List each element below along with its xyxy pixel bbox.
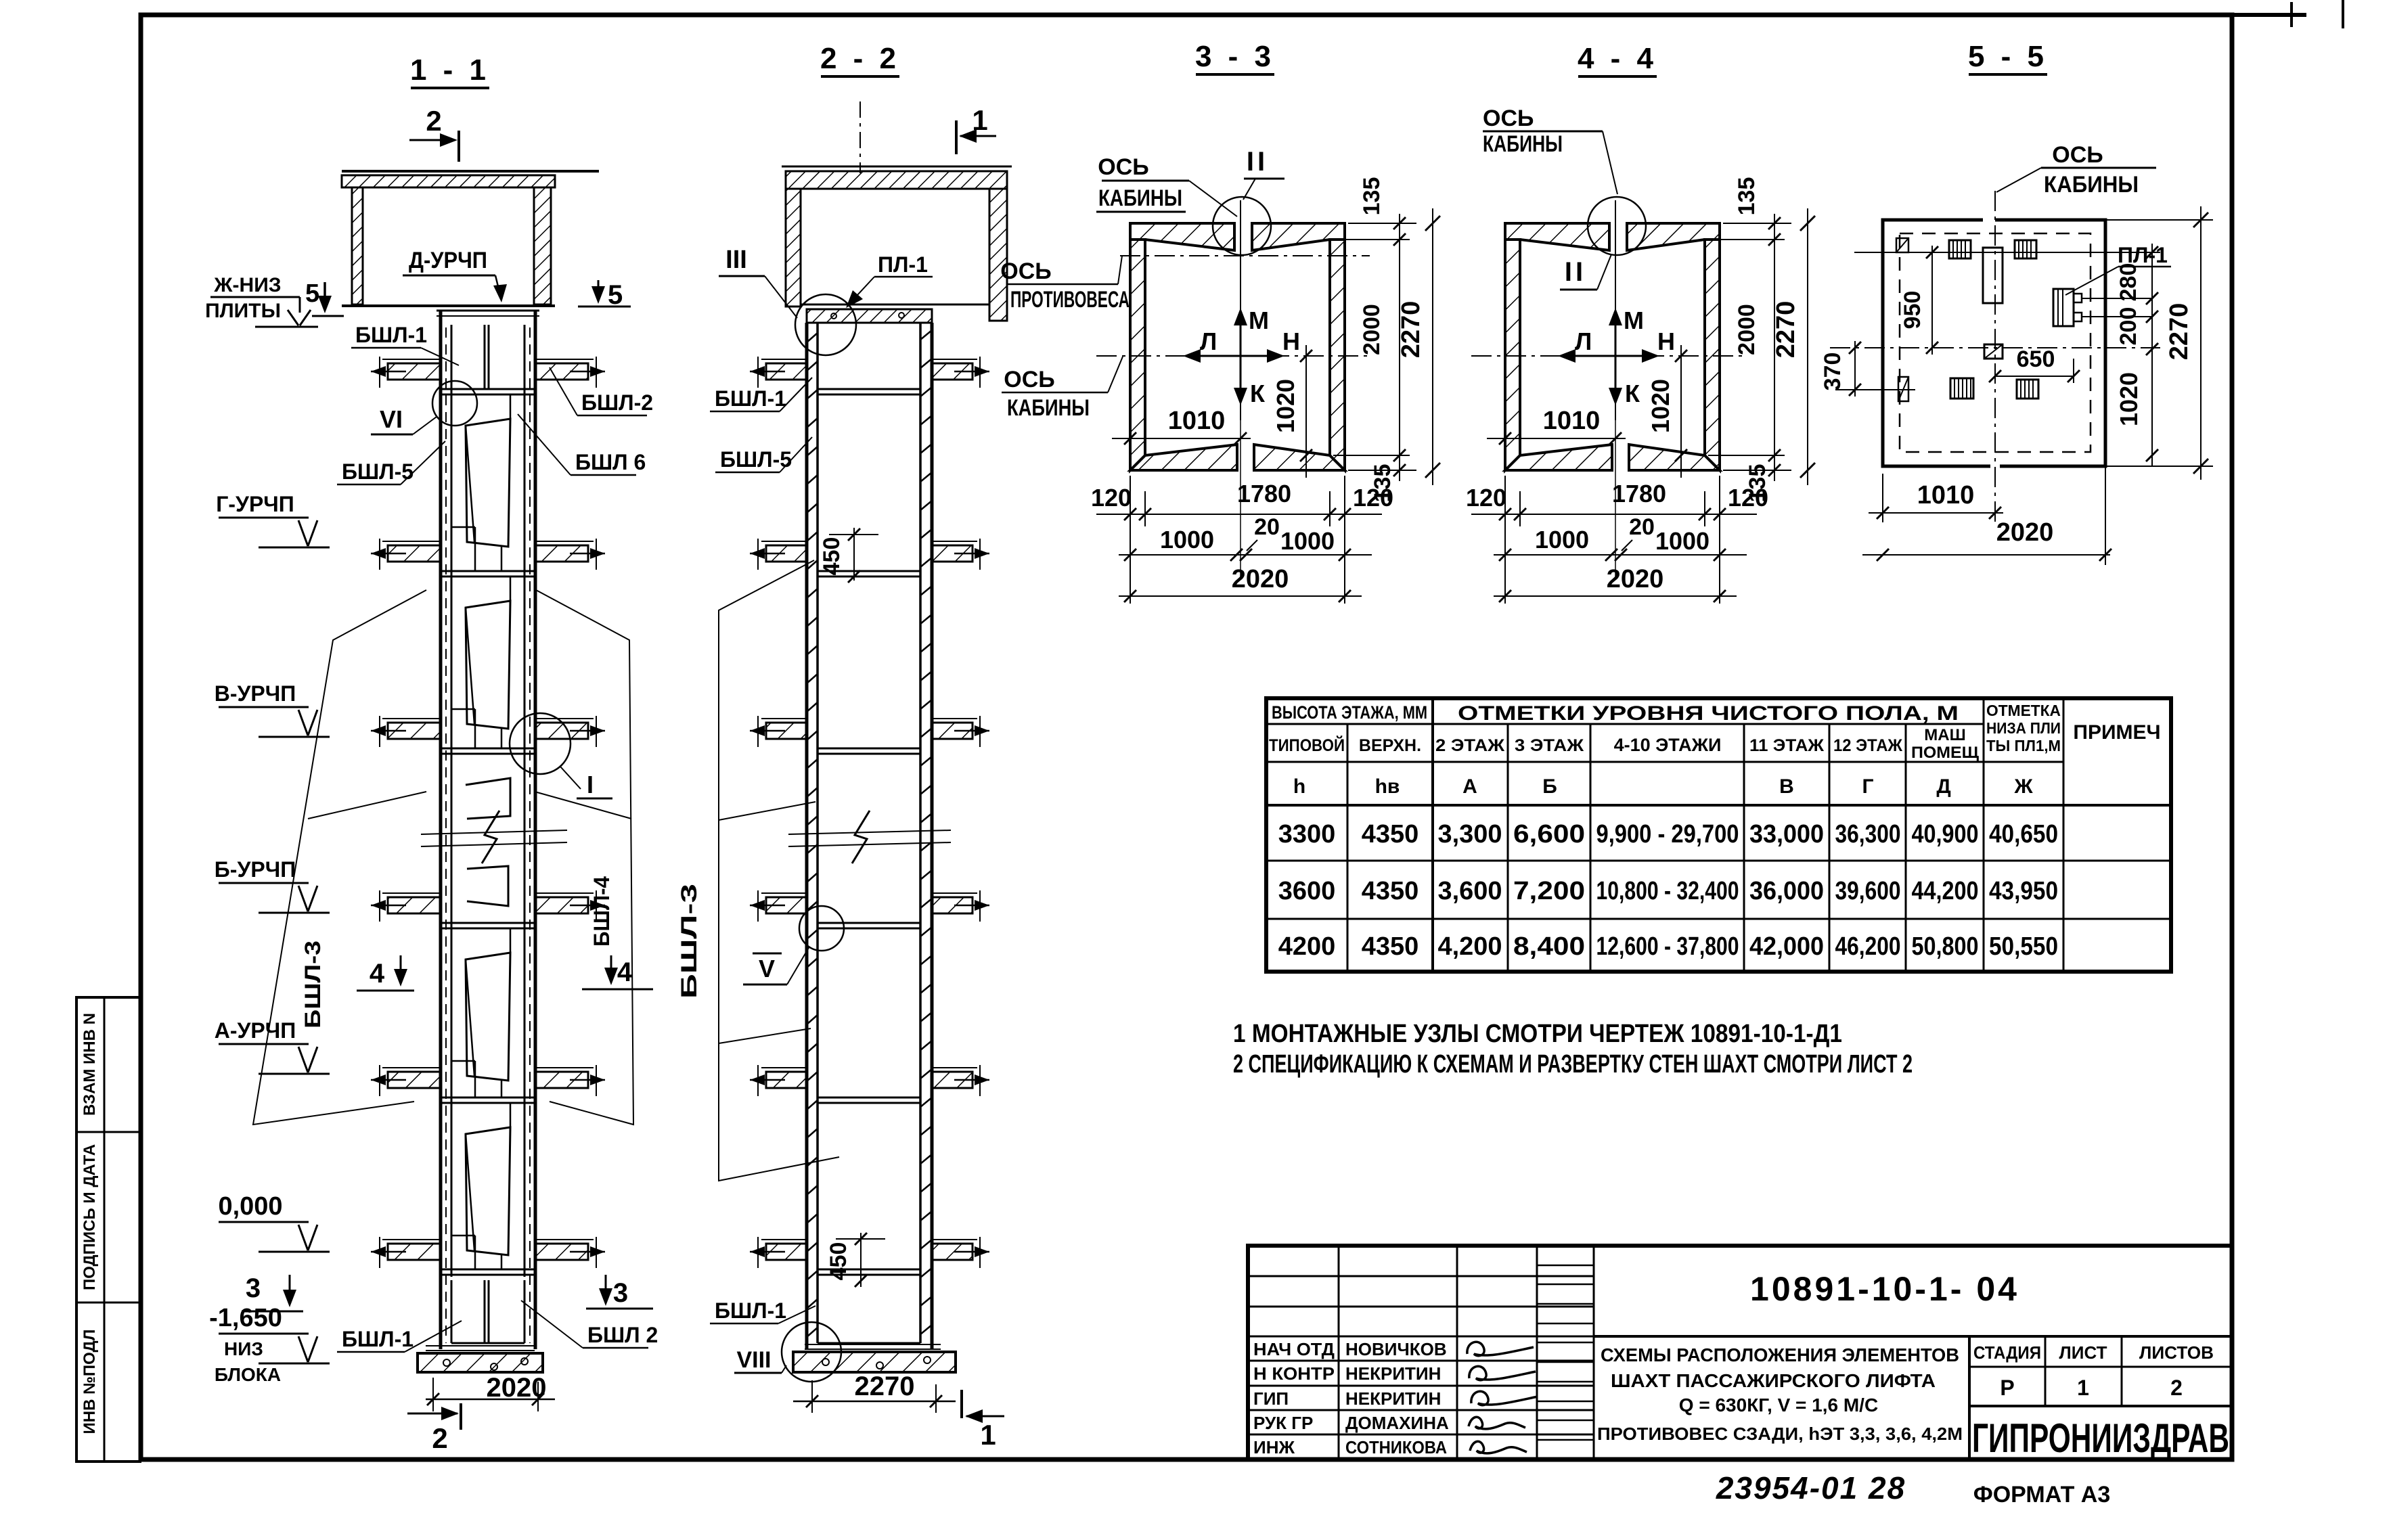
svg-text:НОВИЧКОВ: НОВИЧКОВ bbox=[1345, 1339, 1447, 1359]
svg-text:4: 4 bbox=[617, 957, 633, 987]
svg-text:ШАХТ ПАССАЖИРСКОГО ЛИФТА: ШАХТ ПАССАЖИРСКОГО ЛИФТА bbox=[1611, 1370, 1936, 1391]
svg-text:К: К bbox=[1250, 380, 1266, 407]
svg-text:1: 1 bbox=[980, 1419, 996, 1451]
svg-text:М: М bbox=[1624, 307, 1644, 334]
svg-text:ОСЬ: ОСЬ bbox=[2052, 142, 2103, 168]
svg-text:II: II bbox=[1247, 147, 1268, 177]
svg-text:46,200: 46,200 bbox=[1835, 932, 1901, 961]
dim 950 bbox=[1931, 246, 1933, 355]
svg-text:БШЛ-3: БШЛ-3 bbox=[677, 884, 701, 999]
section marker 1 (bottom) bbox=[960, 1390, 963, 1418]
svg-text:2: 2 bbox=[432, 1422, 447, 1454]
svg-text:40,900: 40,900 bbox=[1912, 820, 1979, 848]
svg-text:6,600: 6,600 bbox=[1513, 820, 1585, 848]
shaft 1-1 left wall bbox=[439, 311, 443, 1349]
svg-text:ГИП: ГИП bbox=[1253, 1388, 1289, 1409]
svg-text:БШЛ-1: БШЛ-1 bbox=[342, 1327, 414, 1351]
svg-text:СТАДИЯ: СТАДИЯ bbox=[1973, 1342, 2041, 1363]
section marker 5 right bbox=[598, 280, 600, 300]
svg-text:h: h bbox=[1293, 775, 1305, 798]
svg-text:2000: 2000 bbox=[1359, 304, 1385, 355]
svg-text:4 - 4: 4 - 4 bbox=[1578, 42, 1657, 75]
break symbol 2-2 bbox=[788, 830, 951, 834]
svg-text:Р: Р bbox=[2000, 1376, 2014, 1400]
svg-text:ИНЖ: ИНЖ bbox=[1253, 1437, 1295, 1457]
shaft 2-2 block joints bbox=[818, 388, 920, 390]
section 4-4 walls bbox=[1505, 223, 1609, 250]
slab ПЛ-1 bbox=[807, 309, 932, 323]
break symbol 1-1 bbox=[421, 830, 567, 834]
shaft 1-1 door openings bbox=[466, 419, 510, 547]
svg-text:0,000: 0,000 bbox=[218, 1192, 282, 1221]
svg-text:370: 370 bbox=[1820, 353, 1846, 391]
wall hatch ticks 2-2 bbox=[807, 333, 818, 342]
svg-text:12 ЭТАЖ: 12 ЭТАЖ bbox=[1833, 736, 1902, 755]
svg-text:1000: 1000 bbox=[1280, 527, 1335, 555]
detail circle III bbox=[795, 294, 856, 355]
section 3-3 axes bbox=[1096, 355, 1370, 357]
svg-text:2270: 2270 bbox=[1772, 301, 1800, 359]
svg-text:10891-10-1- 04: 10891-10-1- 04 bbox=[1750, 1270, 2019, 1308]
bottom dims (4-4) bbox=[1471, 514, 1757, 515]
section 4-4 axes bbox=[1471, 355, 1745, 357]
title block frame bbox=[1248, 1246, 2232, 1459]
svg-text:ПРИМЕЧ: ПРИМЕЧ bbox=[2073, 721, 2160, 744]
svg-text:1000: 1000 bbox=[1655, 527, 1710, 555]
svg-text:В-УРЧП: В-УРЧП bbox=[215, 681, 296, 706]
svg-text:К: К bbox=[1625, 380, 1640, 407]
svg-text:2270: 2270 bbox=[1397, 301, 1425, 359]
svg-text:ПОДПИСЬ И ДАТА: ПОДПИСЬ И ДАТА bbox=[81, 1144, 99, 1290]
svg-text:2020: 2020 bbox=[1607, 565, 1664, 593]
svg-text:-1,650: -1,650 bbox=[209, 1304, 282, 1332]
attachment strip cells bbox=[76, 997, 140, 1462]
svg-text:БШЛ-1: БШЛ-1 bbox=[715, 1298, 786, 1323]
svg-text:VI: VI bbox=[380, 405, 403, 433]
svg-text:МАШ: МАШ bbox=[1924, 726, 1965, 744]
svg-text:33,000: 33,000 bbox=[1749, 820, 1824, 848]
svg-text:БШЛ-2: БШЛ-2 bbox=[581, 390, 653, 415]
svg-text:ВЕРХН.: ВЕРХН. bbox=[1359, 736, 1421, 755]
svg-text:I: I bbox=[587, 771, 594, 798]
bottom dims (3-3) bbox=[1096, 514, 1382, 515]
shaft 1-1 top row blocks БШЛ-1 / БШЛ-2 bbox=[484, 325, 486, 390]
svg-text:ОСЬ: ОСЬ bbox=[1483, 106, 1534, 131]
machine room 2-2 right wall bbox=[989, 189, 1007, 321]
svg-text:36,000: 36,000 bbox=[1749, 877, 1824, 905]
right dims 135/2000/135 (3-3) bbox=[1348, 223, 1416, 224]
svg-text:ПРОТИВОВЕС СЗАДИ, hЭТ 3,3, 3,6: ПРОТИВОВЕС СЗАДИ, hЭТ 3,3, 3,6, 4,2М bbox=[1597, 1424, 1963, 1444]
svg-text:2 СПЕЦИФИКАЦИЮ К СХЕМАМ И: 2 СПЕЦИФИКАЦИЮ К СХЕМАМ И РАЗВЕРТКУ СТЕН… bbox=[1233, 1050, 1913, 1079]
svg-text:3600: 3600 bbox=[1278, 877, 1336, 905]
inner dashed contour 5-5 bbox=[1900, 233, 2091, 452]
dim 370 bbox=[1854, 341, 1856, 397]
top edge line extension bbox=[2232, 13, 2306, 17]
svg-text:Г-УРЧП: Г-УРЧП bbox=[216, 492, 294, 516]
section marker 2 (bottom) bbox=[407, 1413, 457, 1415]
svg-text:3: 3 bbox=[246, 1273, 261, 1303]
shaft 2-2 left wall bbox=[805, 323, 809, 1349]
svg-text:Б: Б bbox=[1542, 775, 1557, 798]
svg-text:ОСЬ: ОСЬ bbox=[1000, 258, 1051, 284]
svg-text:VIII: VIII bbox=[736, 1347, 771, 1373]
svg-text:ВЗАМ ИНВ N: ВЗАМ ИНВ N bbox=[81, 1013, 99, 1116]
svg-text:СХЕМЫ РАСПОЛОЖЕНИЯ ЭЛЕМЕНТОВ: СХЕМЫ РАСПОЛОЖЕНИЯ ЭЛЕМЕНТОВ bbox=[1601, 1344, 1959, 1365]
svg-text:2 - 2: 2 - 2 bbox=[820, 42, 900, 75]
svg-text:ГИПРОНИИЗДРАВ: ГИПРОНИИЗДРАВ bbox=[1972, 1416, 2229, 1461]
svg-text:КАБИНЫ: КАБИНЫ bbox=[2044, 172, 2139, 198]
shaft 1-1 bottom row blocks bbox=[484, 1280, 486, 1343]
section 3-3 detail circle II bbox=[1213, 197, 1271, 255]
section 4-4 detail circle II bbox=[1588, 197, 1646, 255]
svg-text:2: 2 bbox=[426, 105, 441, 137]
svg-text:8,400: 8,400 bbox=[1513, 932, 1585, 961]
svg-text:ОТМЕТКИ УРОВНЯ ЧИСТОГО ПОЛА, М: ОТМЕТКИ УРОВНЯ ЧИСТОГО ПОЛА, М bbox=[1458, 702, 1959, 725]
svg-text:3: 3 bbox=[613, 1278, 628, 1308]
svg-text:1000: 1000 bbox=[1535, 526, 1589, 553]
machine room 2-2 left wall bbox=[786, 189, 801, 307]
svg-text:Ж-НИЗ: Ж-НИЗ bbox=[213, 274, 281, 296]
dims 280/200/1020 bbox=[2151, 244, 2153, 467]
machine room 1-1 right wall bbox=[534, 187, 551, 304]
svg-text:БШЛ-5: БШЛ-5 bbox=[720, 447, 792, 472]
svg-text:М: М bbox=[1249, 307, 1269, 334]
svg-text:4350: 4350 bbox=[1362, 877, 1419, 905]
svg-text:12,600 - 37,800: 12,600 - 37,800 bbox=[1596, 932, 1739, 961]
svg-text:НАЧ ОТД: НАЧ ОТД bbox=[1253, 1339, 1335, 1359]
svg-text:40,650: 40,650 bbox=[1989, 820, 2058, 848]
center pad 5-5 bbox=[1984, 344, 2003, 359]
svg-text:ПОМЕЩ: ПОМЕЩ bbox=[1911, 744, 1980, 762]
svg-text:ПЛИТЫ: ПЛИТЫ bbox=[205, 300, 281, 322]
svg-text:Б-УРЧП: Б-УРЧП bbox=[215, 857, 296, 882]
svg-text:БШЛ 2: БШЛ 2 bbox=[587, 1323, 658, 1347]
hoist machine 5-5 bbox=[2053, 289, 2074, 326]
svg-text:23954-01 28: 23954-01 28 bbox=[1716, 1470, 1906, 1505]
corner pads 5-5 bbox=[1896, 238, 1908, 252]
machine room 2-2 top slab bbox=[782, 166, 1012, 168]
svg-text:БШЛ 6: БШЛ 6 bbox=[575, 450, 646, 474]
svg-text:НЕКРИТИН: НЕКРИТИН bbox=[1345, 1363, 1441, 1384]
svg-text:1010: 1010 bbox=[1543, 407, 1601, 435]
shaft 1-1 cap bbox=[437, 310, 539, 312]
svg-text:НИЗ: НИЗ bbox=[224, 1338, 263, 1359]
svg-text:39,600: 39,600 bbox=[1835, 877, 1901, 905]
svg-text:20: 20 bbox=[1629, 514, 1655, 540]
svg-text:Н: Н bbox=[1282, 327, 1300, 355]
svg-text:3,300: 3,300 bbox=[1438, 820, 1502, 848]
svg-text:42,000: 42,000 bbox=[1749, 932, 1824, 961]
svg-text:450: 450 bbox=[819, 537, 845, 576]
svg-text:1 МОНТАЖНЫЕ УЗЛЫ СМОТРИ: 1 МОНТАЖНЫЕ УЗЛЫ СМОТРИ ЧЕРТЕЖ 10891-10-… bbox=[1233, 1020, 1842, 1048]
svg-text:4: 4 bbox=[370, 959, 385, 989]
dim 2020 (1-1) bbox=[426, 1399, 555, 1401]
dim 2270 (2-2) bbox=[793, 1401, 956, 1403]
svg-text:Д-УРЧП: Д-УРЧП bbox=[409, 248, 487, 273]
svg-text:НИЗА ПЛИ: НИЗА ПЛИ bbox=[1986, 719, 2061, 737]
svg-text:III: III bbox=[725, 246, 747, 274]
svg-text:950: 950 bbox=[1900, 291, 1925, 330]
svg-text:10,800 - 32,400: 10,800 - 32,400 bbox=[1596, 877, 1739, 905]
svg-text:9,900 - 29,700: 9,900 - 29,700 bbox=[1596, 820, 1739, 848]
svg-text:7,200: 7,200 bbox=[1513, 877, 1585, 905]
dim 2270 (5-5) bbox=[2105, 219, 2213, 221]
equipment grates 5-5 bbox=[1949, 240, 1971, 258]
svg-text:3,600: 3,600 bbox=[1438, 877, 1502, 905]
dim 2270 (3-3) bbox=[1432, 208, 1433, 485]
svg-text:КАБИНЫ: КАБИНЫ bbox=[1007, 395, 1090, 421]
svg-text:5: 5 bbox=[608, 280, 623, 310]
limit block 5-5 bbox=[1983, 248, 2003, 303]
svg-text:ПЛ-1: ПЛ-1 bbox=[878, 252, 928, 277]
svg-text:5: 5 bbox=[305, 279, 319, 308]
svg-text:36,300: 36,300 bbox=[1835, 820, 1901, 848]
shaft 1-1 block joints bbox=[442, 388, 534, 390]
svg-text:44,200: 44,200 bbox=[1912, 877, 1979, 905]
dim 450 (bottom) bbox=[860, 1233, 862, 1287]
callout bracket БШЛ-3 (2-2) bbox=[719, 560, 839, 1181]
doc number 10891-10-1-04 bbox=[1594, 1335, 2232, 1338]
svg-text:hв: hв bbox=[1375, 775, 1400, 798]
svg-text:ОТМЕТКА: ОТМЕТКА bbox=[1986, 702, 2061, 719]
svg-text:3300: 3300 bbox=[1278, 820, 1336, 848]
dim 450 (top) bbox=[853, 528, 855, 581]
svg-text:3 ЭТАЖ: 3 ЭТАЖ bbox=[1515, 736, 1584, 755]
svg-text:4200: 4200 bbox=[1278, 932, 1336, 961]
svg-text:1780: 1780 bbox=[1612, 480, 1666, 507]
svg-text:280: 280 bbox=[2116, 263, 2141, 302]
dim 1020 (3-3) bbox=[1305, 345, 1307, 478]
detail V bbox=[799, 906, 844, 951]
svg-text:20: 20 bbox=[1254, 514, 1280, 540]
svg-text:Л: Л bbox=[1575, 327, 1592, 355]
svg-text:ОСЬ: ОСЬ bbox=[1004, 367, 1054, 392]
svg-text:2000: 2000 bbox=[1734, 304, 1760, 355]
scan tick marks top right bbox=[2290, 2, 2293, 27]
svg-text:2020: 2020 bbox=[487, 1373, 547, 1403]
svg-text:КАБИНЫ: КАБИНЫ bbox=[1098, 185, 1182, 211]
svg-text:БШЛ-1: БШЛ-1 bbox=[355, 323, 427, 347]
svg-text:А-УРЧП: А-УРЧП bbox=[215, 1018, 296, 1043]
svg-text:РУК ГР: РУК ГР bbox=[1253, 1413, 1313, 1433]
svg-text:120: 120 bbox=[1466, 484, 1506, 512]
svg-text:Q = 630КГ, V = 1,6 М/С: Q = 630КГ, V = 1,6 М/С bbox=[1679, 1395, 1878, 1416]
svg-text:ПРОТИВОВЕСА: ПРОТИВОВЕСА bbox=[1010, 287, 1130, 313]
svg-text:БЛОКА: БЛОКА bbox=[215, 1364, 281, 1385]
svg-text:4350: 4350 bbox=[1362, 820, 1419, 848]
svg-text:135: 135 bbox=[1359, 177, 1385, 216]
svg-text:2 ЭТАЖ: 2 ЭТАЖ bbox=[1435, 736, 1504, 755]
svg-text:1010: 1010 bbox=[1168, 407, 1226, 435]
right dims 135/2000/135 (4-4) bbox=[1723, 223, 1791, 224]
svg-text:ЛИСТ: ЛИСТ bbox=[2059, 1342, 2107, 1363]
svg-text:3 - 3: 3 - 3 bbox=[1195, 40, 1275, 73]
svg-text:2020: 2020 bbox=[1996, 518, 2054, 547]
svg-text:2020: 2020 bbox=[1232, 565, 1289, 593]
svg-text:Ж: Ж bbox=[2013, 775, 2033, 798]
machine room 1-1 floor bbox=[342, 304, 555, 307]
machine room 2-2 floor bbox=[801, 304, 989, 306]
section 3-3 walls bbox=[1130, 223, 1234, 250]
stage cells bbox=[1968, 1336, 1971, 1459]
svg-text:Д: Д bbox=[1936, 775, 1950, 798]
svg-text:БШЛ-1: БШЛ-1 bbox=[715, 386, 786, 411]
svg-text:Г: Г bbox=[1862, 775, 1873, 798]
svg-text:120: 120 bbox=[1353, 484, 1393, 512]
svg-text:1780: 1780 bbox=[1237, 480, 1291, 507]
svg-text:4350: 4350 bbox=[1362, 932, 1419, 961]
svg-text:ИНВ №ПОДЛ: ИНВ №ПОДЛ bbox=[81, 1330, 99, 1434]
svg-text:50,800: 50,800 bbox=[1912, 932, 1979, 961]
svg-text:2: 2 bbox=[2170, 1376, 2183, 1400]
svg-text:200: 200 bbox=[2116, 307, 2141, 346]
svg-text:120: 120 bbox=[1728, 484, 1768, 512]
svg-text:50,550: 50,550 bbox=[1989, 932, 2058, 961]
svg-text:5 - 5: 5 - 5 bbox=[1968, 40, 2048, 73]
svg-text:Н КОНТР: Н КОНТР bbox=[1253, 1363, 1335, 1384]
axis line противовеса (3-3) bbox=[1120, 255, 1370, 256]
svg-text:11 ЭТАЖ: 11 ЭТАЖ bbox=[1749, 736, 1824, 755]
foundation slab 1-1 bbox=[426, 1345, 535, 1346]
svg-text:НЕКРИТИН: НЕКРИТИН bbox=[1345, 1388, 1441, 1409]
machine room 1-1 top slab bbox=[342, 170, 599, 173]
svg-text:ТИПОВОЙ: ТИПОВОЙ bbox=[1269, 735, 1345, 755]
shaft 2-2 right wall bbox=[931, 323, 934, 1349]
dim 2270 (4-4) bbox=[1807, 208, 1808, 485]
svg-text:ДОМАХИНА: ДОМАХИНА bbox=[1345, 1413, 1449, 1433]
svg-text:135: 135 bbox=[1734, 177, 1760, 216]
dim 1020 (4-4) bbox=[1680, 345, 1682, 478]
svg-text:ТЫ ПЛ1,М: ТЫ ПЛ1,М bbox=[1986, 737, 2061, 754]
svg-text:450: 450 bbox=[826, 1242, 851, 1281]
svg-text:4,200: 4,200 bbox=[1438, 932, 1502, 961]
detail I bbox=[510, 713, 571, 774]
dim 650 bbox=[1995, 376, 2074, 377]
section marker 3 right bbox=[605, 1275, 607, 1302]
svg-text:1020: 1020 bbox=[2115, 372, 2143, 426]
axis lines 5-5 bbox=[1994, 191, 1996, 526]
svg-text:ОСЬ: ОСЬ bbox=[1098, 154, 1148, 180]
svg-text:650: 650 bbox=[2017, 346, 2055, 372]
svg-text:А: А bbox=[1462, 775, 1477, 798]
svg-text:43,950: 43,950 bbox=[1989, 877, 2058, 905]
svg-text:Н: Н bbox=[1657, 327, 1675, 355]
svg-text:БШЛ-4: БШЛ-4 bbox=[589, 876, 614, 947]
section marker 4 right bbox=[610, 955, 612, 981]
foundation slab 2-2 bbox=[805, 1344, 941, 1345]
signature table bbox=[1338, 1246, 1340, 1459]
svg-text:1: 1 bbox=[2077, 1376, 2089, 1400]
shaft 1-1 right wall bbox=[534, 311, 537, 1349]
svg-text:ФОРМАТ А3: ФОРМАТ А3 bbox=[1973, 1482, 2111, 1508]
svg-text:ЛИСТОВ: ЛИСТОВ bbox=[2139, 1342, 2214, 1363]
svg-text:1010: 1010 bbox=[1917, 481, 1975, 509]
svg-text:ВЫСОТА ЭТАЖА, ММ: ВЫСОТА ЭТАЖА, ММ bbox=[1272, 702, 1427, 723]
center axis line 2-2 bbox=[859, 101, 861, 173]
svg-text:КАБИНЫ: КАБИНЫ bbox=[1483, 131, 1563, 157]
callout bracket БШЛ-3 (1-1) bbox=[253, 590, 426, 1125]
floors table bbox=[1266, 698, 2171, 972]
svg-text:Л: Л bbox=[1200, 327, 1217, 355]
machine room plan 5-5 outline bbox=[1883, 220, 1990, 466]
svg-text:2270: 2270 bbox=[855, 1372, 915, 1401]
svg-text:V: V bbox=[759, 955, 775, 982]
svg-text:4-10 ЭТАЖИ: 4-10 ЭТАЖИ bbox=[1614, 735, 1722, 755]
svg-text:В: В bbox=[1779, 775, 1794, 798]
svg-text:2270: 2270 bbox=[2165, 303, 2193, 361]
svg-text:1 - 1: 1 - 1 bbox=[410, 53, 490, 87]
svg-text:БШЛ-5: БШЛ-5 bbox=[342, 459, 414, 484]
shaft 1-1 floor slabs bbox=[382, 359, 441, 360]
machine room 1-1 left wall bbox=[352, 187, 363, 304]
svg-text:1000: 1000 bbox=[1160, 526, 1214, 553]
shaft 2-2 floor slabs bbox=[761, 359, 807, 360]
svg-text:БШЛ-3: БШЛ-3 bbox=[300, 941, 325, 1028]
svg-text:1020: 1020 bbox=[1272, 379, 1299, 433]
svg-text:120: 120 bbox=[1091, 484, 1132, 512]
svg-text:СОТНИКОВА: СОТНИКОВА bbox=[1345, 1437, 1447, 1457]
svg-text:1020: 1020 bbox=[1647, 379, 1674, 433]
callout bracket БШЛ-4 (1-1) bbox=[536, 590, 633, 1125]
svg-text:II: II bbox=[1565, 257, 1586, 287]
